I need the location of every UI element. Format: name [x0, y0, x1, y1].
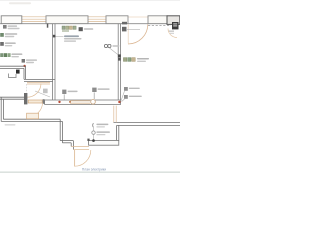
balcony window band: [71, 147, 89, 150]
wall joint tick below pier P2 left: [47, 24, 49, 28]
door frame end tick: [43, 99, 45, 104]
corridor door arc: [27, 84, 41, 98]
door D1 arc (top wall): [128, 24, 148, 44]
electrical panel icon top-right: [172, 22, 179, 29]
dashed ceiling line right of P4: [148, 25, 171, 27]
pier P1 top-left: [1, 16, 22, 24]
pier bar at x~25: [24, 93, 27, 104]
right room lower annotation: squares + text: [123, 58, 126, 62]
hallway connector line: [93, 128, 95, 131]
outlet dot on wall V2 lower: [118, 58, 121, 61]
red outlet dot at bathroom wall corner: [23, 65, 25, 67]
door leaf into living room: [28, 100, 42, 103]
pier P5 dark top-right: [167, 16, 180, 25]
boiler icon in bathroom: [16, 70, 20, 74]
legend row 1 (left): [3, 25, 7, 29]
tan sliding door segment in band: [70, 101, 90, 103]
icon A above band: [62, 90, 66, 94]
top edge line: [0, 0, 180, 2]
pier P3: [106, 16, 128, 24]
corridor small icon: [43, 89, 48, 94]
legend row 2: [0, 33, 4, 37]
wall band H4 (y~100-104.5): [45, 100, 121, 104]
bathroom wall H1 (y~67): [0, 66, 26, 68]
bottom-right exterior wall H8: [113, 122, 180, 125]
footer separator: [0, 172, 180, 173]
faint room label under wall: [5, 124, 16, 126]
corridor wall H2 (y~80): [24, 79, 55, 81]
top wall: door opening threshold faint line: [128, 16, 148, 18]
legend row 4 icon cluster: [0, 53, 3, 57]
pier P4: [148, 16, 167, 24]
dark icon + label right of squares: [79, 27, 83, 31]
pier P2 top-center: [46, 16, 88, 24]
red outlet dots on band: [58, 101, 60, 103]
knob circle on band: [91, 100, 96, 105]
balcony door arc: [75, 150, 91, 166]
balcony door leaf: [74, 150, 76, 167]
red dot at band right corner: [118, 101, 120, 103]
legend row 3: [0, 42, 4, 46]
label above bathroom wall: [22, 59, 25, 63]
icon C with leader to wall V2: [104, 44, 107, 47]
tick at band left end: [87, 139, 89, 141]
left exterior wall V4: [1, 97, 3, 121]
door D1 leaf: [127, 24, 129, 43]
pier P3 right end dark mark: [122, 22, 127, 25]
right lower wall V7: [117, 125, 119, 140]
step wall V5: [60, 119, 62, 143]
hallway label 2: [92, 131, 95, 134]
icon B above band: [92, 88, 96, 92]
small door arc near panel: [168, 29, 177, 38]
interior wall V2 (x~119): [118, 24, 120, 101]
step wall H6: [60, 141, 73, 143]
step wall V6: [71, 141, 73, 150]
top wall: window W1 lines: [21, 17, 47, 22]
outlet dot on wall V1: [53, 35, 56, 38]
panel small marks below: [169, 31, 175, 32]
corner label 2 (right of wall V2): [124, 95, 128, 99]
bottom wall H5: [1, 119, 62, 121]
svg-text:План электрики: План электрики: [82, 168, 106, 172]
bottom wall band H7: [89, 140, 119, 145]
dark dot at hallway wall: [92, 139, 95, 142]
hallway label 1: [92, 123, 95, 127]
dashed line above pier: [26, 84, 28, 93]
sink symbol in bathroom: [9, 74, 17, 78]
icon row below pier P2 (colored squares): [62, 26, 76, 32]
top wall inner face line: [0, 23, 180, 25]
leader from V1 dot to note: [56, 35, 64, 37]
wall H3 left (y~98): [0, 97, 26, 99]
furniture rect on bottom wall: [27, 113, 39, 119]
corner label 1 (right of wall V2): [124, 87, 128, 91]
note text block (middle room, upper): [64, 35, 79, 37]
outlet dot on wall V2: [118, 54, 121, 57]
corridor diagonal pointer: [35, 91, 50, 97]
interior wall V1 (x~53): [53, 24, 55, 100]
title text top-left: [9, 2, 31, 4]
top wall: window W2 lines: [87, 17, 107, 22]
icon + leader in right room below P3: [122, 27, 127, 32]
radiator lines below corridor wall: [27, 82, 50, 84]
tan window band vertical (hall): [114, 106, 116, 123]
living room door arc: [28, 103, 42, 117]
bathroom wall V3 (x~25): [24, 66, 26, 79]
